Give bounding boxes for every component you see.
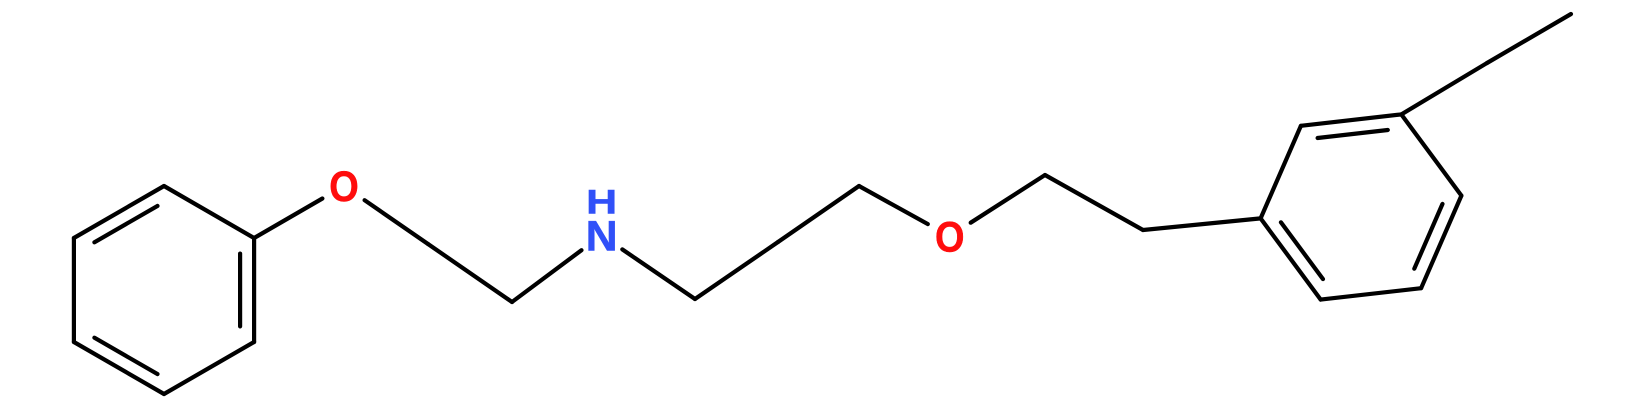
benzene ring 1 inner double bond edge 1 bbox=[238, 254, 242, 327]
bond C2 to N bbox=[512, 250, 582, 302]
benzene ring 2 edge 5 bbox=[1261, 218, 1321, 299]
bond O2 to P1 bbox=[971, 175, 1045, 223]
benzene ring 2 edge 4 bbox=[1321, 288, 1421, 299]
benzene ring 1 edge 4 bbox=[72, 238, 76, 342]
benzene ring 1 edge 3 bbox=[74, 342, 164, 394]
benzene ring 2 edge 0 bbox=[1261, 126, 1301, 219]
svg-text:O: O bbox=[935, 214, 965, 261]
benzene ring 1 edge 5 bbox=[74, 186, 164, 238]
svg-text:H: H bbox=[586, 183, 617, 221]
bond ring2 TR to tail C bbox=[1401, 63, 1487, 114]
bond C4 to C5 bbox=[778, 186, 859, 242]
benzene ring 1 edge 0 bbox=[164, 186, 254, 238]
bond C3 to C4 bbox=[695, 242, 778, 299]
benzene ring 2 inner double bond edge 3 bbox=[1414, 204, 1442, 269]
bond V1 to ring2 bbox=[1143, 218, 1261, 230]
bond P1 to V1 bbox=[1045, 175, 1143, 230]
benzene ring 2 inner double bond edge 5 bbox=[1281, 222, 1323, 279]
benzene ring 2 edge 2 bbox=[1401, 114, 1461, 195]
benzene ring 1 inner double bond edge 5 bbox=[94, 206, 157, 242]
bond N to C3 bbox=[622, 249, 695, 299]
svg-text:O: O bbox=[329, 164, 359, 211]
benzene ring 1 edge 2 bbox=[164, 342, 254, 394]
benzene ring 2 inner double bond edge 1 bbox=[1318, 130, 1388, 138]
benzene ring 1 edge 1 bbox=[252, 238, 256, 342]
benzene ring 1 inner double bond edge 3 bbox=[94, 338, 157, 374]
benzene ring 2 edge 3 bbox=[1421, 196, 1461, 289]
bond O1 to C1 bbox=[365, 200, 428, 244]
benzene ring 2 edge 1 bbox=[1301, 114, 1401, 125]
bond ring1 to O1 bbox=[254, 199, 322, 239]
bond tail C to tail CH3 bbox=[1487, 14, 1571, 63]
bond C1 to C2 bbox=[428, 244, 512, 302]
bond C5 to O2 bbox=[859, 186, 928, 224]
